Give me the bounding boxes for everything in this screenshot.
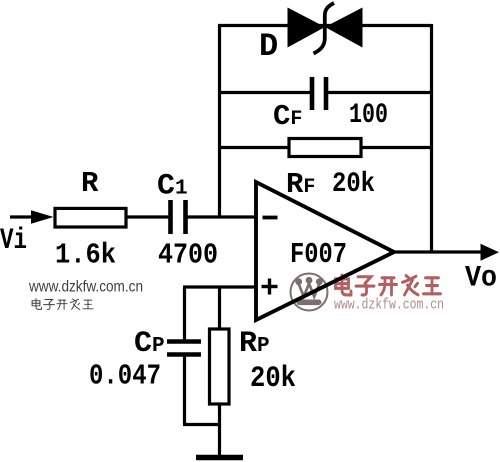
- wire left feedback rail: [218, 25, 221, 217]
- wire CP bottom branch: [183, 354, 220, 425]
- svg-text:D: D: [259, 28, 278, 65]
- svg-text:20k: 20k: [332, 169, 375, 200]
- capacitor CP: [167, 342, 201, 355]
- ground: [196, 455, 243, 461]
- watermark text dianzikaifawang red: [336, 275, 441, 295]
- capacitor CF: [312, 77, 326, 110]
- op-amp U1 triangle: [256, 182, 394, 320]
- svg-text:R: R: [81, 167, 99, 200]
- svg-text:Vi: Vi: [0, 224, 27, 258]
- capacitor C1: [171, 200, 186, 234]
- wire RP bottom: [218, 404, 221, 456]
- watermark logo circle: [291, 274, 328, 311]
- resistor R1: [55, 208, 126, 227]
- wire output: [394, 250, 488, 253]
- svg-text:100: 100: [349, 100, 388, 131]
- output arrow: [481, 244, 500, 261]
- wire RF row: [219, 146, 431, 149]
- wire plus input row: [183, 285, 256, 288]
- wire R to C1: [126, 215, 170, 218]
- svg-text:1.6k: 1.6k: [55, 239, 116, 272]
- resistor RP: [210, 329, 230, 404]
- svg-text:www.dzkfw.com.cn: www.dzkfw.com.cn: [28, 279, 143, 296]
- wire right feedback rail: [430, 24, 433, 252]
- opamp plus input symbol: [262, 279, 278, 295]
- svg-text:F007: F007: [290, 238, 347, 271]
- watermark text dianzikaifawang left gray: [32, 299, 93, 310]
- resistor RF: [289, 139, 361, 157]
- svg-text:0.047: 0.047: [89, 360, 161, 393]
- svg-text:20k: 20k: [250, 362, 296, 396]
- wire input Vi: [10, 215, 34, 218]
- wire C1 to opamp minus: [185, 215, 256, 218]
- svg-text:4700: 4700: [158, 239, 218, 272]
- wire top: [218, 24, 431, 27]
- diode D bidirectional zener: [288, 3, 363, 54]
- input arrow: [31, 210, 54, 224]
- wire CF row: [219, 91, 431, 94]
- opamp minus input symbol: [263, 216, 278, 220]
- wire RP top: [218, 287, 221, 329]
- svg-text:www.dzkfw.com.cn: www.dzkfw.com.cn: [334, 298, 444, 314]
- svg-text:Vo: Vo: [465, 262, 497, 296]
- wire CP top branch: [183, 287, 186, 341]
